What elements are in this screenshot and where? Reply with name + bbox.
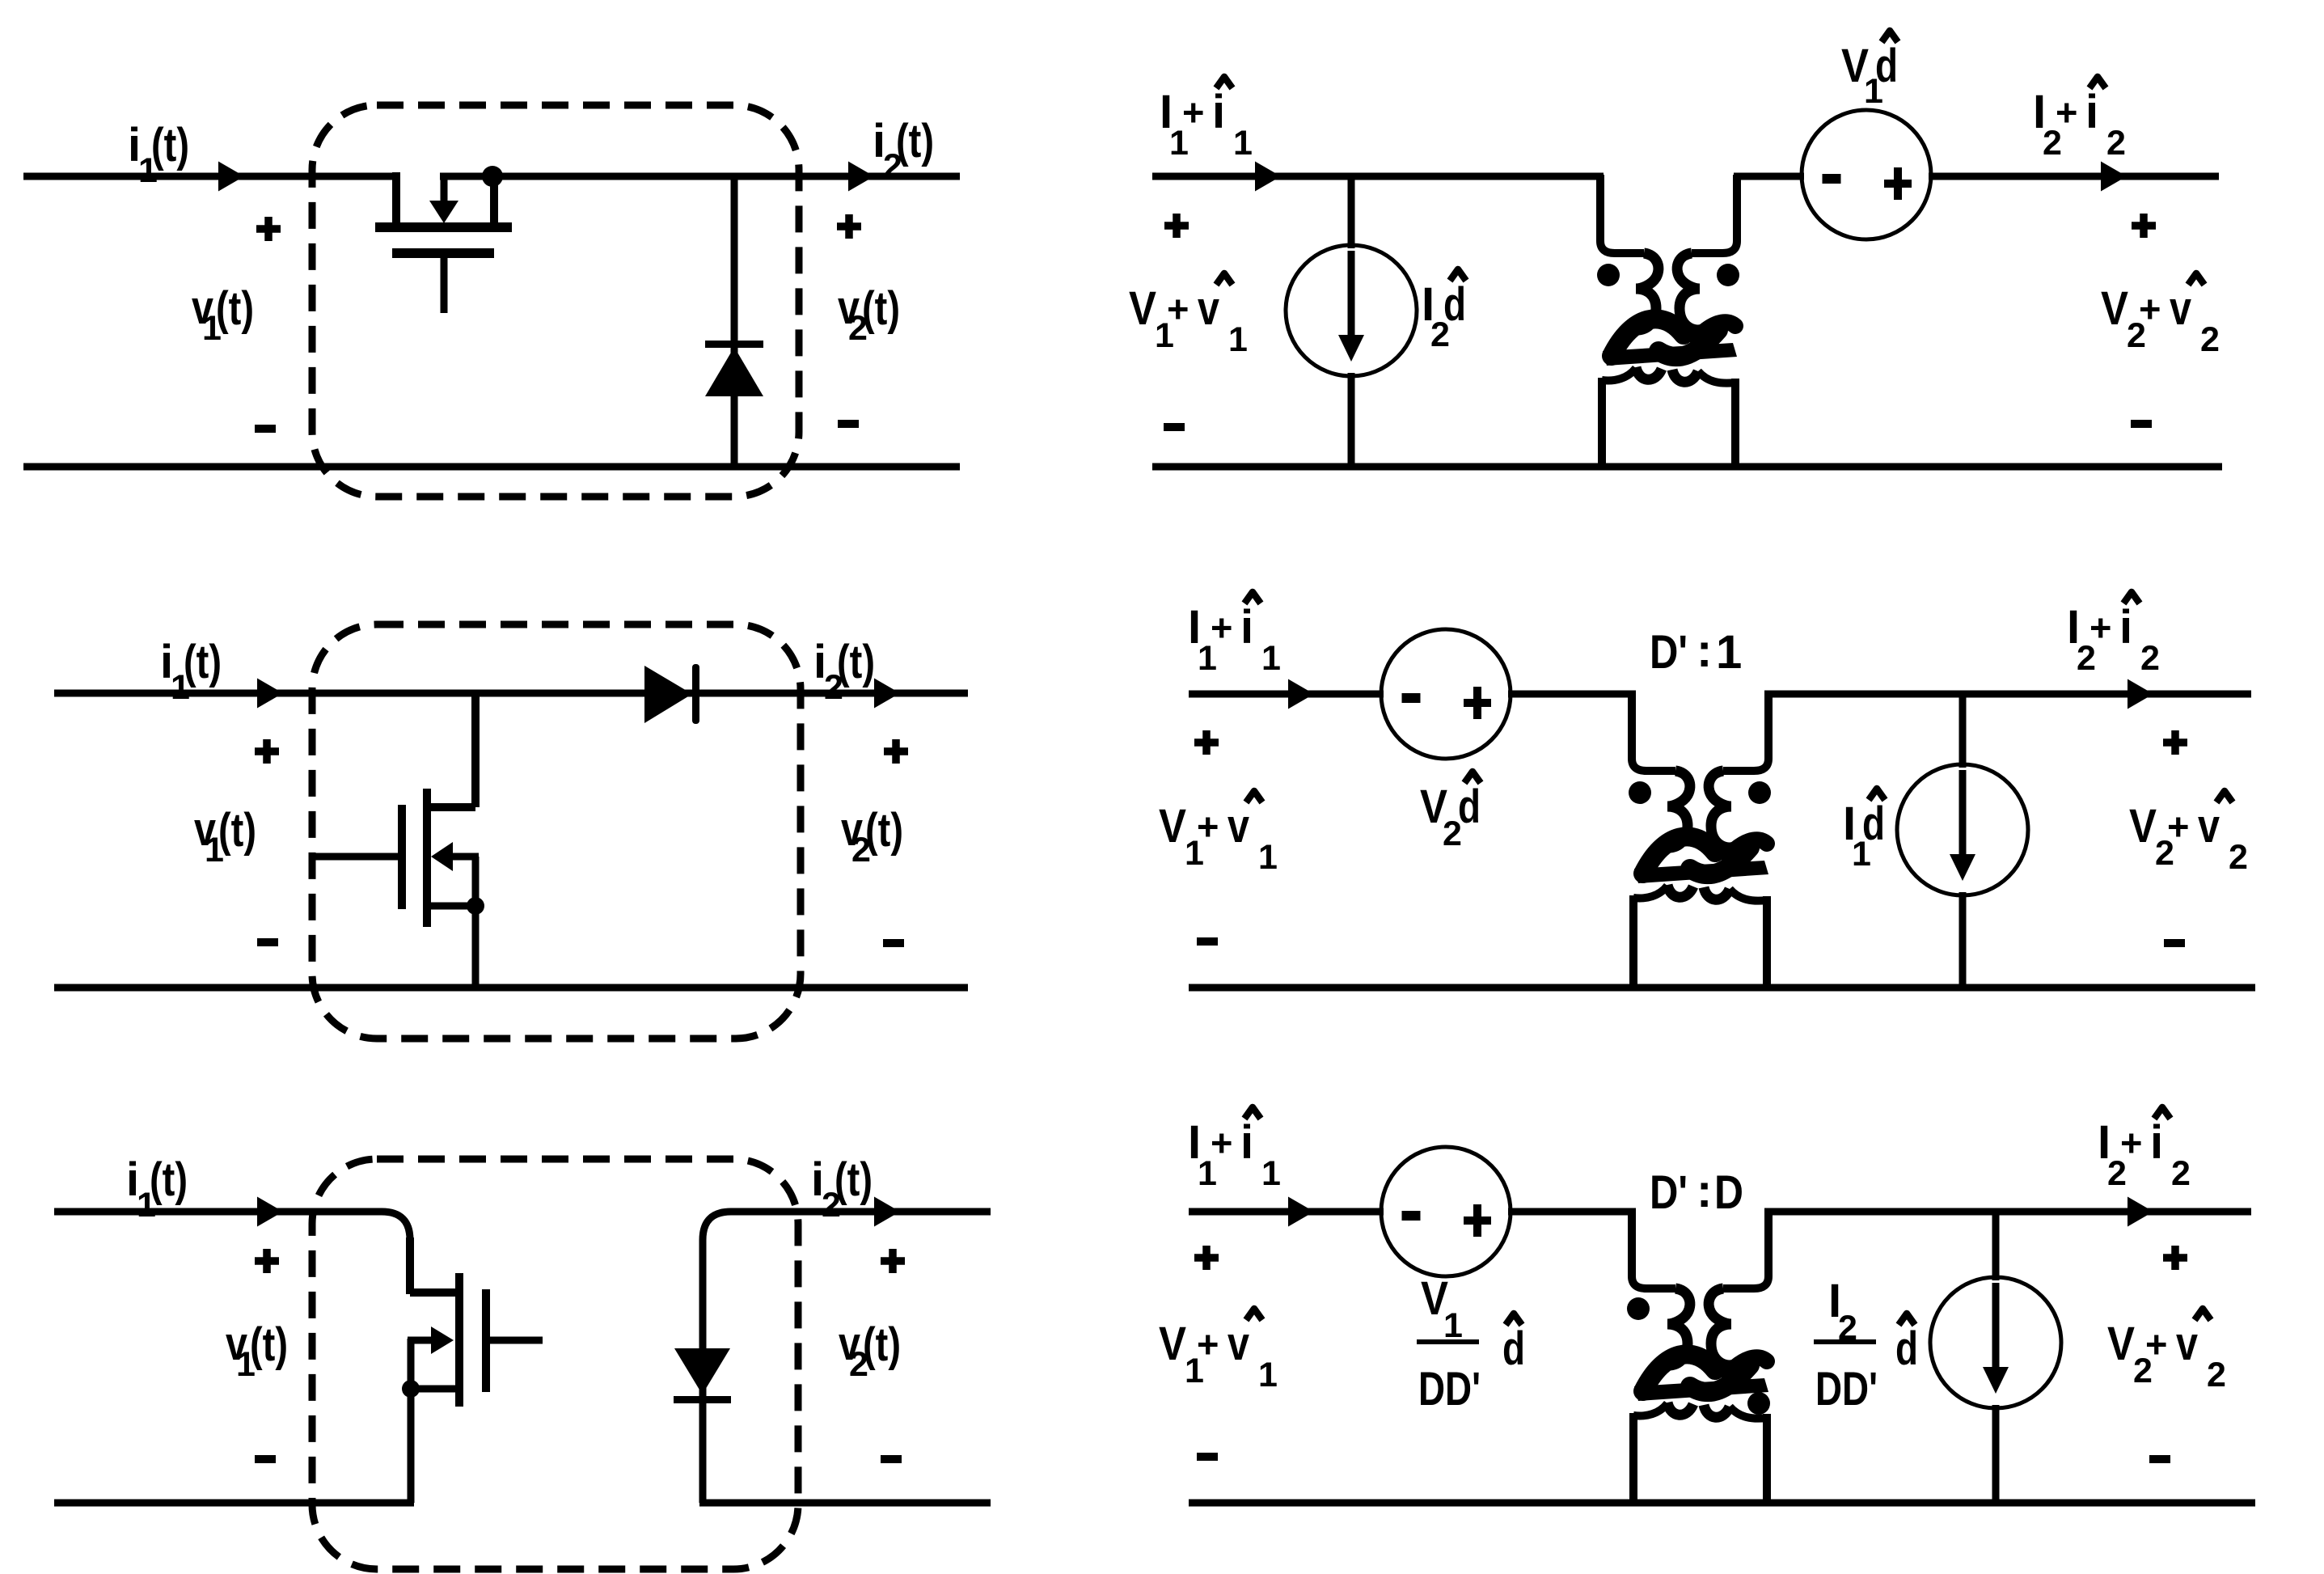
svg-text:+: + — [1211, 1121, 1232, 1164]
svg-text:2: 2 — [2229, 838, 2248, 877]
wire: row1 model top rail right segment — [1734, 173, 1804, 180]
wire: current source branch bottom — [1348, 373, 1355, 467]
svg-text:1: 1 — [1443, 1306, 1463, 1345]
svg-text:v: v — [1227, 1318, 1249, 1370]
wire: row2 bottom rail — [54, 984, 968, 992]
svg-text:+: + — [2139, 287, 2161, 330]
svg-text:+: + — [2089, 606, 2111, 649]
svg-text:D: D — [1714, 1166, 1743, 1219]
svg-text:1: 1 — [1233, 124, 1253, 163]
polarity + v2(t) — [881, 1257, 905, 1265]
svg-text:(t): (t) — [216, 282, 254, 335]
svg-text::: : — [1697, 1165, 1712, 1217]
svg-text:1: 1 — [1258, 1356, 1278, 1394]
dashed box: row3 switch network boundary — [312, 1159, 798, 1569]
polarity + v1(t) — [255, 747, 279, 755]
svg-text:+: + — [1167, 287, 1189, 330]
wire: row3 current source branch top — [1992, 1212, 2000, 1280]
wire: row3 model top rail right with arrow — [1764, 1208, 2251, 1216]
svg-text:2: 2 — [2200, 320, 2220, 359]
transistor Q1: MOSFET (buck) — [375, 172, 512, 313]
svg-text:(t): (t) — [184, 636, 222, 688]
svg-text:i: i — [1240, 601, 1253, 654]
diode D2 (boost) — [644, 664, 699, 724]
svg-text:(t): (t) — [151, 119, 189, 171]
wire: row2 top rail with i1(t) arrow and i2(t) arrow — [54, 690, 968, 697]
svg-text:d: d — [1862, 798, 1885, 850]
wire: row1 left bottom rail — [23, 463, 960, 471]
svg-text:V: V — [2107, 1318, 2135, 1370]
wire: row2 model input rail with arrow — [1189, 691, 1384, 698]
svg-text:i: i — [1212, 86, 1225, 138]
svg-text:v: v — [2198, 800, 2220, 853]
polarity - v1(t) — [257, 938, 278, 946]
voltage source V1 d-hat — [1802, 110, 1931, 239]
voltage source V2 d-hat — [1381, 629, 1511, 759]
svg-text:i: i — [2119, 601, 2132, 654]
arrowhead i2(t) row1 left — [848, 162, 874, 192]
svg-text:2: 2 — [2207, 1356, 2226, 1394]
svg-text:d: d — [1458, 781, 1481, 833]
svg-text:(t): (t) — [218, 804, 256, 857]
diode D3 (buck-boost) — [674, 1240, 731, 1503]
polarity - V2+v2 — [2131, 420, 2152, 428]
current source I2/DD' d-hat — [1930, 1277, 2061, 1408]
dashed box: row2 switch network boundary — [312, 624, 801, 1039]
wire: row1 input top rail with i1(t) arrow — [23, 173, 396, 180]
svg-text:1: 1 — [1261, 1154, 1281, 1193]
wire: row3 model bottom rail — [1189, 1500, 2255, 1507]
polarity - v2(t) — [838, 420, 859, 428]
svg-text:1: 1 — [1261, 639, 1281, 678]
wire: row2 model top rail middle — [1508, 691, 1636, 698]
svg-text:d: d — [1875, 40, 1898, 92]
polarity - v1(t) — [255, 425, 276, 433]
wire: row2 current source branch top — [1959, 694, 1967, 768]
transistor Q2: MOSFET (boost) — [312, 693, 484, 988]
wire: row3 current source branch bottom — [1992, 1405, 2000, 1503]
wire: row3 bottom rail left — [54, 1500, 414, 1507]
wire: current source branch top — [1348, 176, 1355, 248]
polarity + v1(t) — [255, 1257, 279, 1265]
wire: row2 model top rail right with arrow — [1764, 691, 2251, 698]
wire: row3 top rail left with i1(t) arrow — [54, 1212, 410, 1240]
wire: row3 model input rail with arrow — [1189, 1208, 1384, 1216]
polarity - V2+v2 — [2164, 939, 2185, 947]
svg-text:v: v — [2176, 1318, 2198, 1370]
svg-text:+: + — [2167, 805, 2189, 848]
svg-text:+: + — [1182, 91, 1204, 133]
polarity + v1(t) — [256, 225, 281, 233]
polarity - v2(t) — [883, 939, 904, 947]
polarity - V2+v2 — [2149, 1455, 2170, 1463]
polarity + v2(t) — [837, 222, 861, 231]
wire: row2 model bottom rail — [1189, 984, 2255, 992]
svg-text:v: v — [1198, 282, 1219, 335]
polarity + V1+v1 — [1164, 222, 1189, 230]
svg-text:(t): (t) — [150, 1153, 188, 1206]
svg-text:(t): (t) — [837, 636, 875, 688]
svg-text:(t): (t) — [835, 1153, 873, 1206]
svg-text:(t): (t) — [896, 115, 934, 167]
svg-text:(t): (t) — [250, 1318, 288, 1371]
wire: row1 top rail right of MOSFET — [440, 173, 960, 180]
svg-text::: : — [1697, 624, 1712, 677]
wire: row3 model top rail middle — [1508, 1208, 1636, 1216]
svg-text:1: 1 — [1228, 320, 1248, 359]
wire: row3 top rail right with i2(t) arrow — [703, 1212, 991, 1240]
svg-text:(t): (t) — [863, 1318, 901, 1371]
transformer T3 (D':D) — [1627, 1210, 1770, 1504]
svg-text:v: v — [1227, 800, 1249, 853]
svg-text:i: i — [1240, 1116, 1253, 1169]
svg-text:D': D' — [1650, 1166, 1688, 1219]
voltage source V1/DD' d-hat — [1381, 1147, 1511, 1276]
polarity - v2(t) — [881, 1455, 902, 1463]
wire: row1 model top rail left with arrow — [1152, 173, 1604, 180]
svg-text:i: i — [2150, 1116, 2163, 1169]
svg-text:+: + — [1197, 805, 1219, 848]
svg-text:+: + — [2120, 1121, 2142, 1164]
transformer T2 (D':1) — [1629, 692, 1771, 986]
transistor Q3: MOSFET (buck-boost) — [402, 1238, 543, 1503]
polarity + V2+v2 — [2163, 1254, 2187, 1262]
svg-text:d: d — [1443, 278, 1466, 331]
current source I2 d-hat — [1286, 245, 1417, 376]
svg-text:2: 2 — [2171, 1154, 2191, 1193]
wire: row2 current source branch bottom — [1959, 892, 1967, 988]
svg-text:1: 1 — [1716, 626, 1742, 679]
transformer T1 (1:D) — [1597, 175, 1739, 468]
svg-text:V: V — [1159, 800, 1186, 853]
svg-text:2: 2 — [2106, 124, 2126, 163]
svg-text:+: + — [2056, 91, 2077, 133]
wire: row3 bottom rail right — [699, 1500, 991, 1507]
svg-text:i: i — [2085, 86, 2098, 138]
svg-text:d: d — [1895, 1322, 1918, 1375]
svg-text:1: 1 — [1258, 838, 1278, 877]
polarity + V1+v1 — [1194, 1254, 1219, 1262]
svg-text:V: V — [1159, 1318, 1186, 1370]
svg-text:+: + — [1197, 1322, 1219, 1365]
node: MOSFET source junction dot — [482, 166, 503, 187]
wire: row1 model bottom rail — [1152, 463, 2222, 471]
svg-text:2: 2 — [2140, 639, 2160, 678]
polarity - V1+v1 — [1164, 423, 1185, 431]
svg-text:(t): (t) — [862, 282, 900, 335]
svg-text:DD': DD' — [1815, 1363, 1878, 1415]
polarity - V1+v1 — [1197, 1453, 1218, 1461]
svg-text:V: V — [1129, 282, 1156, 335]
dashed box: row1 switch network boundary — [312, 105, 799, 497]
polarity - v1(t) — [255, 1455, 276, 1463]
svg-text:d: d — [1502, 1322, 1525, 1375]
current source I1 d-hat — [1897, 764, 2028, 895]
diode D1 (buck freewheel) — [705, 176, 763, 467]
polarity + V1+v1 — [1194, 738, 1219, 747]
svg-text:+: + — [2145, 1322, 2167, 1365]
polarity + v2(t) — [884, 747, 908, 755]
svg-text:V: V — [2101, 282, 2128, 335]
polarity - V1+v1 — [1197, 937, 1218, 946]
svg-text:D': D' — [1650, 626, 1688, 679]
svg-text:+: + — [1211, 606, 1232, 649]
svg-text:(t): (t) — [865, 804, 903, 857]
svg-text:V: V — [2129, 800, 2157, 853]
wire: row1 model output rail with arrow — [1929, 173, 2219, 180]
svg-text:v: v — [2170, 282, 2191, 335]
polarity + V2+v2 — [2132, 222, 2156, 230]
svg-text:DD': DD' — [1418, 1363, 1481, 1415]
polarity + V2+v2 — [2163, 738, 2187, 747]
